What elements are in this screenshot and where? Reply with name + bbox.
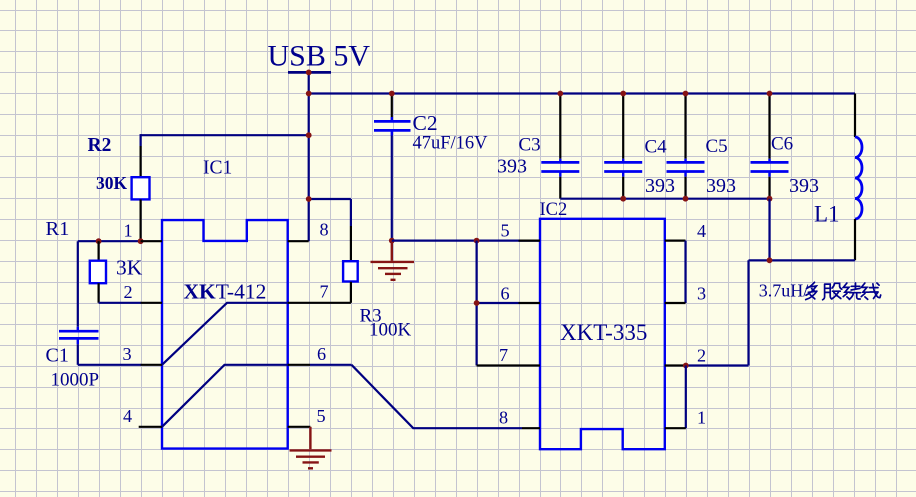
svg-text:8: 8 bbox=[319, 220, 328, 240]
junction C4/rail bbox=[620, 91, 626, 97]
svg-text:C3: C3 bbox=[519, 134, 541, 155]
svg-text:XKT-335: XKT-335 bbox=[560, 320, 647, 345]
junction C5/rail bbox=[683, 91, 689, 97]
svg-text:3: 3 bbox=[697, 283, 706, 303]
wire pin3-pin7 internal link bbox=[162, 303, 288, 365]
pin 2 IC2 bbox=[665, 364, 686, 366]
svg-text:2: 2 bbox=[123, 282, 132, 302]
wire pin5-pin6-pin7 vertical bbox=[476, 241, 478, 366]
svg-text:IC2: IC2 bbox=[540, 200, 568, 220]
pin 3 IC1 bbox=[141, 364, 162, 366]
svg-text:USB 5V: USB 5V bbox=[268, 39, 371, 72]
svg-text:1: 1 bbox=[123, 220, 132, 240]
wire R3 top wire bbox=[309, 198, 351, 200]
svg-text:393: 393 bbox=[645, 175, 675, 197]
wire pin2-pin1 vertical bbox=[685, 366, 687, 429]
junction IC2 pin6 bbox=[474, 300, 480, 306]
svg-text:47uF/16V: 47uF/16V bbox=[413, 134, 489, 154]
pin 1 IC1 bbox=[141, 240, 162, 242]
node USB_5V power bar bbox=[288, 71, 331, 74]
svg-text:1: 1 bbox=[697, 408, 706, 428]
ground under IC1 pin 5 bbox=[290, 427, 332, 469]
svg-text:C2: C2 bbox=[413, 111, 438, 135]
pin 2 IC1 bbox=[141, 302, 162, 304]
junction IC2 pin5 bbox=[474, 238, 480, 244]
inductor value label Chinese: duo gu rao xian bbox=[806, 282, 881, 299]
pin 5 IC1 bbox=[288, 426, 311, 428]
pin 6 IC1 bbox=[288, 364, 310, 366]
junction C5 lower bbox=[683, 196, 689, 202]
junction bbox=[96, 238, 102, 244]
svg-text:2: 2 bbox=[697, 345, 706, 365]
pin 7 IC2 bbox=[477, 364, 540, 366]
svg-text:4: 4 bbox=[697, 221, 706, 241]
wire C6 down to L1 bottom node bbox=[768, 199, 770, 261]
junction C6/rail bbox=[767, 91, 773, 97]
wire IC1 pin 2 wire bbox=[99, 302, 141, 304]
pin 3 IC2 bbox=[665, 302, 686, 304]
wire +5V main rail bbox=[308, 92, 855, 94]
wire IC1 pin 3 wire bbox=[78, 364, 141, 366]
svg-text:6: 6 bbox=[317, 344, 326, 364]
wire pin4-pin3 vertical bbox=[684, 241, 686, 303]
inductor L1 bbox=[854, 94, 856, 138]
op-amp U-IC2 XKT-335 body bbox=[540, 219, 665, 449]
wire down to IC2 pin 2 bbox=[747, 260, 749, 365]
pin 8 IC2 bbox=[522, 427, 540, 429]
pin 1 IC2 bbox=[665, 427, 686, 429]
wire IC1 pin6 to IC2 pin8 bbox=[310, 364, 352, 366]
junction bbox=[138, 238, 144, 244]
svg-text:R1: R1 bbox=[46, 218, 70, 240]
svg-text:C5: C5 bbox=[706, 136, 728, 157]
svg-text:5: 5 bbox=[316, 406, 325, 426]
ground under C2 bbox=[371, 241, 415, 280]
svg-text:4: 4 bbox=[123, 406, 132, 426]
junction C3/rail bbox=[557, 91, 563, 97]
svg-text:393: 393 bbox=[706, 175, 736, 197]
svg-text:5: 5 bbox=[500, 221, 509, 241]
svg-text:C6: C6 bbox=[771, 134, 793, 155]
wire L1 bottom node bbox=[749, 259, 856, 261]
capacitor C1 bbox=[77, 241, 79, 327]
svg-text:C1: C1 bbox=[46, 345, 69, 367]
svg-text:L1: L1 bbox=[814, 202, 840, 227]
pin 5 IC2 bbox=[392, 240, 540, 242]
junction R3 wire bbox=[306, 196, 312, 202]
pin 8 IC1 bbox=[288, 240, 309, 242]
op-amp U-IC1 XKT-412 body bbox=[162, 220, 288, 449]
wire IC1 pin 1 net bbox=[78, 240, 141, 242]
capacitor C5 bbox=[684, 94, 686, 159]
svg-text:IC1: IC1 bbox=[203, 158, 232, 179]
svg-text:XKT-412: XKT-412 bbox=[184, 279, 267, 303]
resistor R3 bbox=[350, 226, 352, 261]
junction C2/ground/pin5 bbox=[389, 238, 395, 244]
svg-text:3: 3 bbox=[122, 344, 131, 364]
capacitor C4 bbox=[622, 94, 624, 159]
resistor R2 bbox=[140, 146, 142, 177]
pin 6 IC2 bbox=[477, 302, 519, 304]
wire R2 top wire bbox=[141, 134, 309, 136]
svg-text:3.7uH/: 3.7uH/ bbox=[759, 281, 809, 301]
svg-text:393: 393 bbox=[789, 175, 819, 197]
junction C6 lower bbox=[767, 196, 773, 202]
wire USB vertical to rail and IC1 pin 8 bbox=[308, 72, 310, 241]
svg-text:1000P: 1000P bbox=[51, 370, 100, 391]
junction R2 wire bbox=[306, 132, 312, 138]
pin 4 IC2 bbox=[665, 240, 686, 242]
junction C4 lower bbox=[620, 196, 626, 202]
svg-text:7: 7 bbox=[499, 345, 508, 365]
resistor R1 bbox=[97, 241, 99, 261]
pin 4 IC1 bbox=[139, 426, 162, 428]
junction C6/L1 node bbox=[767, 257, 773, 263]
svg-text:3K: 3K bbox=[116, 256, 143, 280]
junction IC2 pin2 bbox=[683, 363, 689, 369]
wire pin4-pin6 internal link bbox=[162, 365, 288, 427]
svg-text:C4: C4 bbox=[645, 137, 668, 158]
wire lower capacitor rail bbox=[560, 198, 769, 200]
capacitor C6 bbox=[768, 94, 770, 159]
pin 7 IC1 bbox=[288, 302, 351, 304]
svg-text:393: 393 bbox=[497, 155, 527, 177]
svg-text:30K: 30K bbox=[96, 173, 128, 193]
capacitor C3 bbox=[559, 94, 561, 159]
svg-text:6: 6 bbox=[500, 284, 509, 304]
svg-text:100K: 100K bbox=[369, 320, 412, 341]
capacitor C2 bbox=[391, 94, 393, 118]
junction C2/rail bbox=[389, 91, 395, 97]
svg-text:R2: R2 bbox=[88, 135, 112, 156]
svg-text:8: 8 bbox=[499, 408, 508, 428]
junction USB bar bbox=[306, 70, 312, 76]
junction rail/USB bbox=[306, 91, 312, 97]
svg-text:7: 7 bbox=[319, 282, 328, 302]
